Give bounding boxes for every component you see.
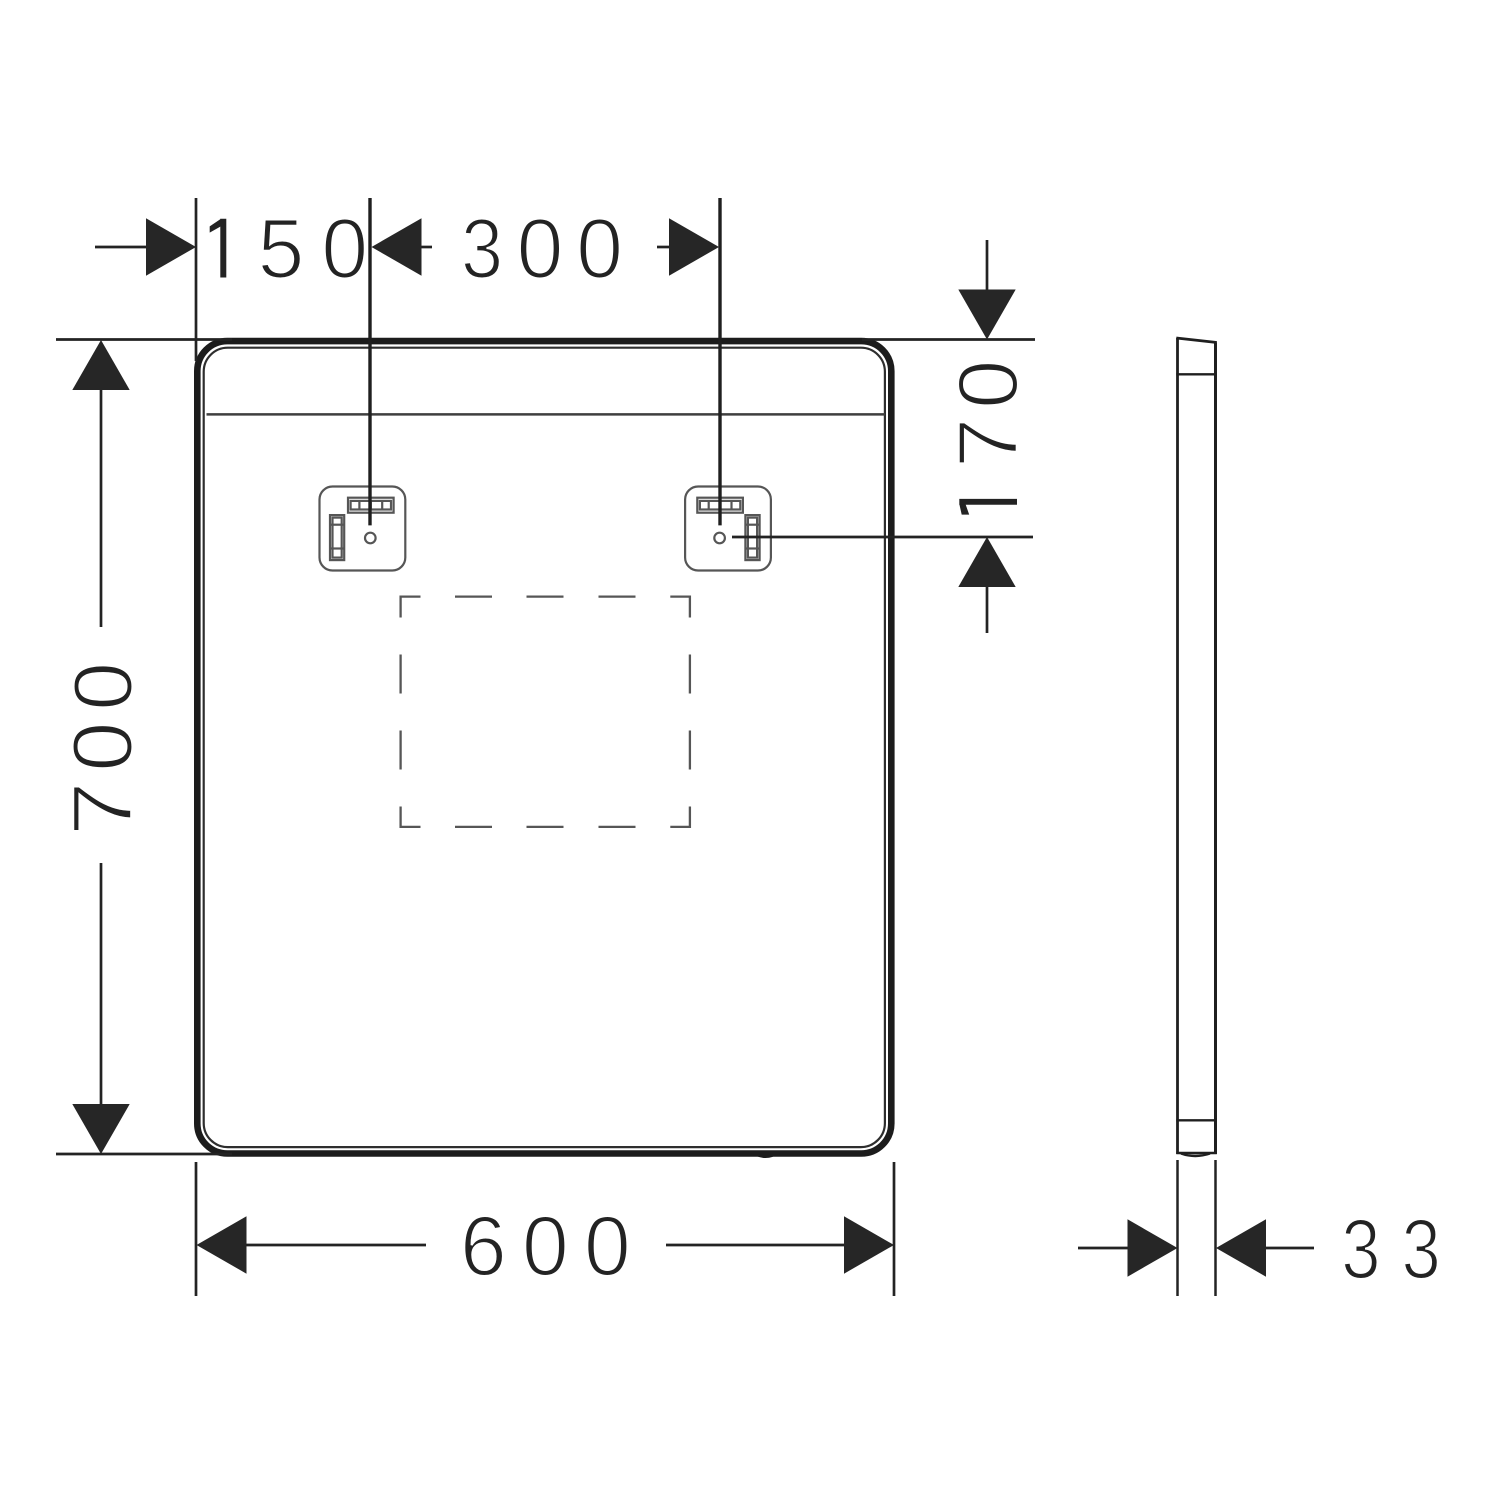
dashed mounting area square xyxy=(401,597,690,827)
left top extension line xyxy=(56,338,232,341)
svg-text:7: 7 xyxy=(57,781,150,836)
side bottom right extension xyxy=(1214,1160,1217,1296)
dim 150/300: middle arrow xyxy=(372,218,422,275)
svg-text:0: 0 xyxy=(56,721,150,771)
bottom left extension line xyxy=(195,1162,198,1296)
dim 170: top tail xyxy=(986,240,989,291)
dim 600: right arrow xyxy=(844,1216,894,1273)
centre line through left bracket xyxy=(368,198,371,525)
side view bottom cap curve xyxy=(1181,1154,1210,1157)
dim 700: up arrow xyxy=(72,340,129,390)
side bottom left extension xyxy=(1176,1160,1179,1296)
dim 150: text xyxy=(210,201,368,295)
dim 600: left segment xyxy=(247,1244,427,1247)
svg-text:0: 0 xyxy=(584,1199,631,1293)
dim 170: bottom tail xyxy=(986,587,989,633)
svg-text:0: 0 xyxy=(57,662,151,711)
mirror inner frame line xyxy=(204,348,885,1147)
wall bracket left: screw hole xyxy=(365,533,376,544)
dim 33: left tail xyxy=(1078,1247,1128,1250)
svg-text:33: 33 xyxy=(1341,1203,1461,1296)
dim 33: right tail xyxy=(1266,1247,1314,1250)
side view bottom edge xyxy=(1176,1152,1217,1155)
left bottom extension line xyxy=(56,1153,232,1156)
top extension line to the right xyxy=(862,338,1035,341)
side view left edge xyxy=(1176,338,1179,1154)
dim 300: stub right xyxy=(657,246,669,249)
left extension line at mirror edge top xyxy=(195,198,198,361)
svg-text:3: 3 xyxy=(461,202,503,296)
dim 33: right arrow xyxy=(1216,1219,1266,1276)
wall bracket right: screw hole xyxy=(714,533,725,544)
wall bracket left: body xyxy=(320,487,406,571)
centre line through right bracket xyxy=(718,198,721,525)
mirror outer frame (front view) xyxy=(197,341,891,1153)
svg-text:5: 5 xyxy=(258,201,305,295)
svg-text:0: 0 xyxy=(522,1199,569,1293)
wall bracket right: body xyxy=(685,487,771,571)
dim 700: lower tail xyxy=(100,863,103,1104)
bracket height extension line xyxy=(732,536,1033,539)
side view top inner line xyxy=(1176,373,1217,375)
dim 700: down arrow xyxy=(72,1104,129,1154)
dim 700: upper tail xyxy=(100,390,103,627)
sensor tick on bottom edge xyxy=(751,1153,780,1158)
dim 700: text xyxy=(56,662,150,837)
dim 600: right segment xyxy=(666,1244,846,1247)
side view top edge xyxy=(1176,338,1217,343)
dim 150: left tail xyxy=(95,246,147,249)
bottom right extension line xyxy=(893,1162,896,1296)
svg-text:0: 0 xyxy=(942,359,1035,409)
svg-text:7: 7 xyxy=(941,418,1035,468)
dim 300: stub left xyxy=(422,246,433,249)
svg-text:0: 0 xyxy=(517,201,564,295)
dim 33: left arrow xyxy=(1128,1219,1178,1276)
dim 600: text xyxy=(460,1199,631,1293)
dim 170: text xyxy=(941,359,1035,514)
dim 300: text xyxy=(461,201,623,295)
dim 600: left arrow xyxy=(197,1216,247,1273)
svg-text:6: 6 xyxy=(460,1199,507,1293)
svg-text:0: 0 xyxy=(321,201,368,295)
svg-text:0: 0 xyxy=(576,201,623,295)
side view right edge xyxy=(1214,343,1217,1155)
mirror inner top horizontal line xyxy=(207,413,886,416)
dim 300: right arrow xyxy=(669,218,719,275)
side view bottom inner line xyxy=(1176,1119,1217,1121)
dim 150: left arrow xyxy=(146,218,196,275)
dim 170: up arrow xyxy=(958,537,1015,587)
dim 170: down arrow xyxy=(958,290,1015,340)
